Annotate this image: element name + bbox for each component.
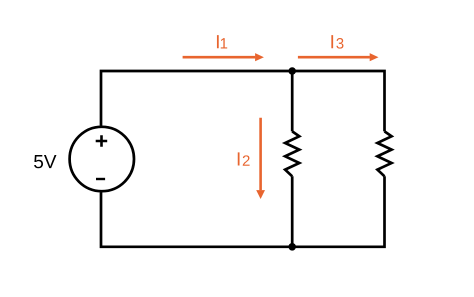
wire: middle branch lower stub [291,176,294,247]
node A (top junction dot) [288,67,296,75]
node B (bottom junction dot) [288,243,296,251]
V1 plus sign [96,135,108,147]
label I2 [238,152,250,165]
label I3 [331,35,343,49]
current arrow I2 [256,118,265,199]
label I1 [217,35,227,48]
wire: right branch lower stub + bottom rail + left lower wire [101,176,385,247]
wire: middle branch upper stub [291,71,294,131]
V1 minus sign [96,178,105,180]
voltage source V1 circle [70,127,134,191]
current arrow I1 [183,53,264,61]
resistor R2 (right branch) [377,131,391,176]
value label 5V [34,155,56,168]
current arrow I3 [298,53,379,61]
resistor R1 (middle branch) [285,131,299,176]
wire: top-left + top rail + right branch upper stub [101,71,385,131]
